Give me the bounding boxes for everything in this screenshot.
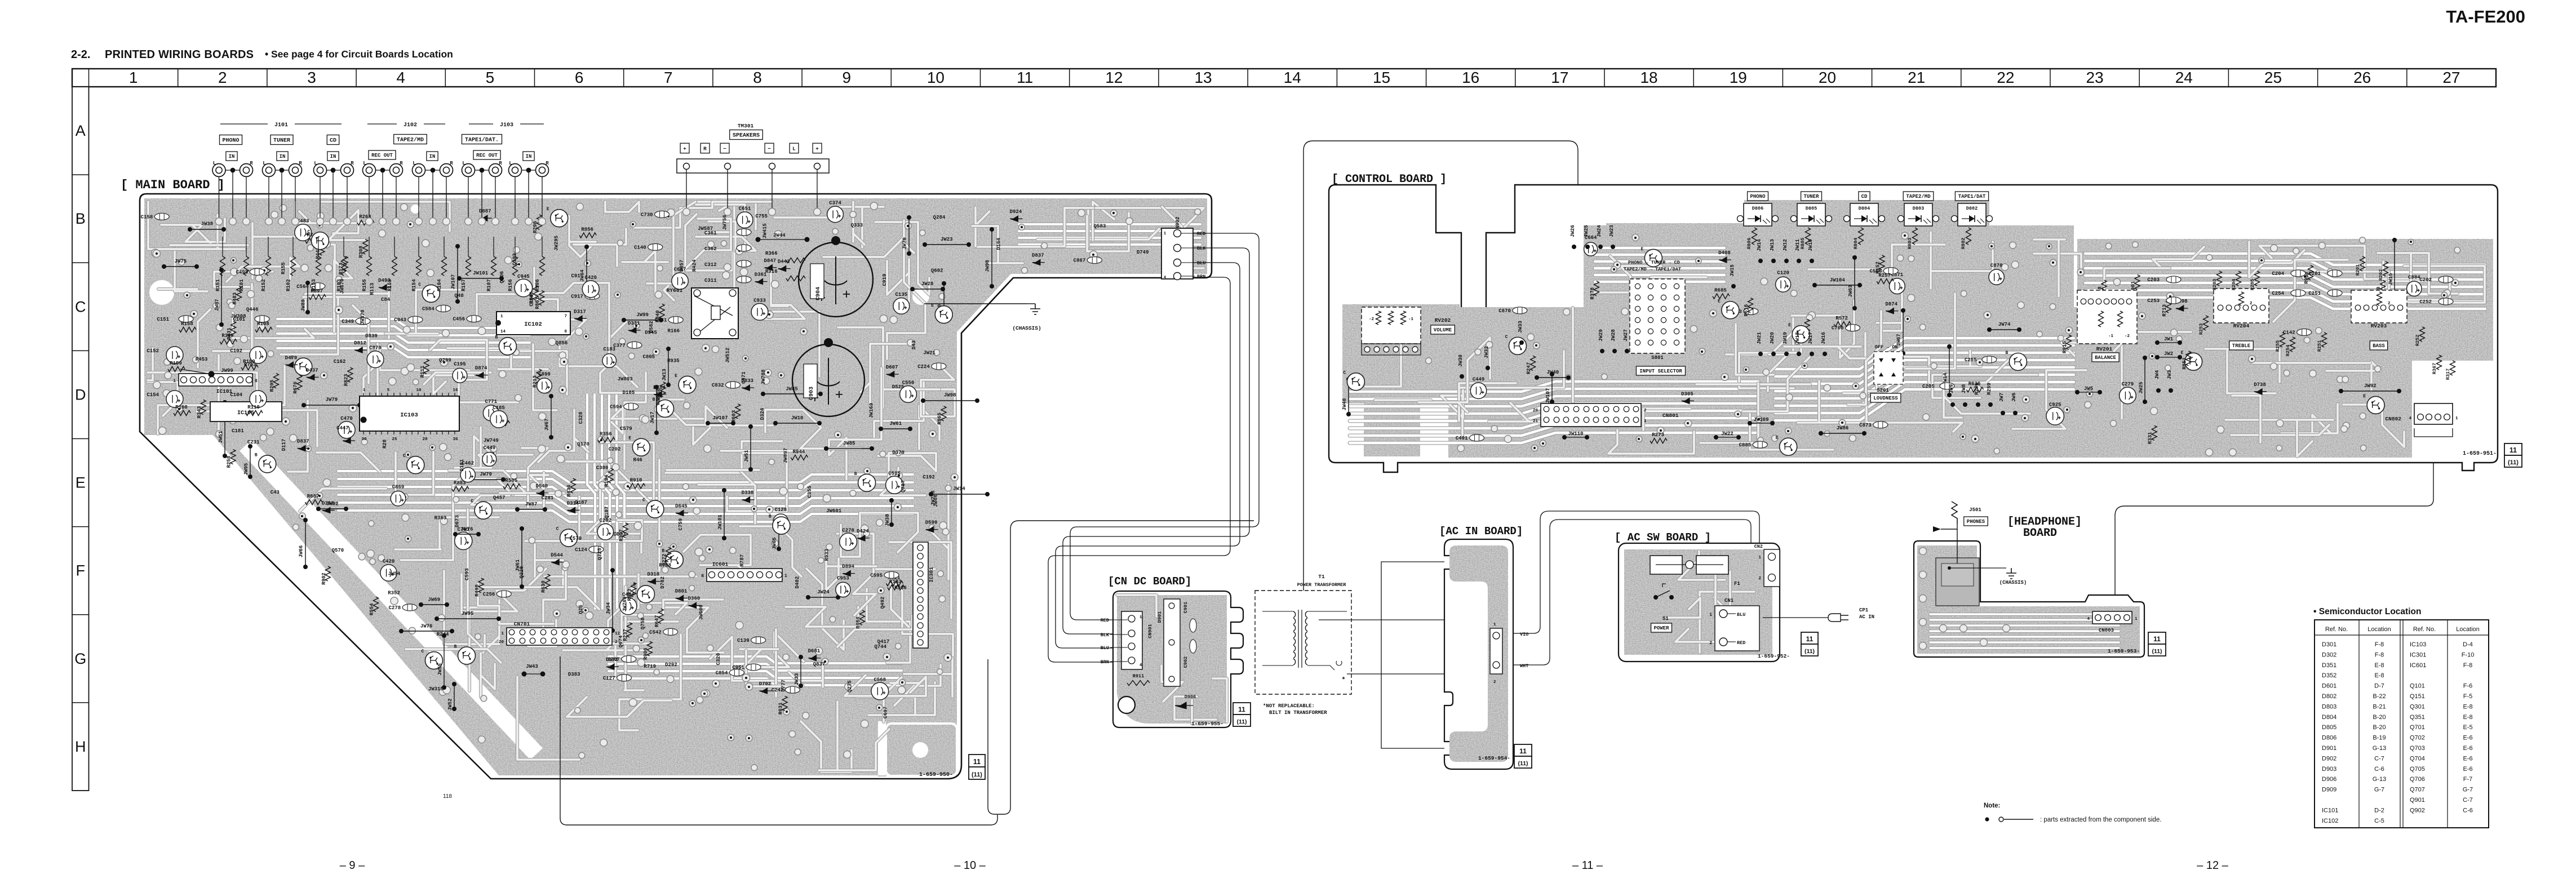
- wire: [874, 379, 924, 438]
- svg-text:D906: D906: [2322, 776, 2336, 783]
- svg-text:E-6: E-6: [2463, 755, 2472, 762]
- diode D424: [857, 535, 870, 541]
- wire: [2253, 361, 2370, 365]
- svg-text:JW27: JW27: [1623, 329, 1629, 341]
- wire: [471, 495, 509, 505]
- capacitor C899: [537, 378, 552, 393]
- svg-text:C903: C903: [809, 387, 815, 400]
- svg-text:C771: C771: [485, 399, 498, 405]
- capacitor C207: [622, 655, 636, 662]
- resistor R851: [2186, 351, 2191, 366]
- svg-text:RV201: RV201: [2096, 346, 2113, 352]
- jumper JW65: [777, 520, 781, 524]
- svg-text:R865: R865: [937, 412, 943, 425]
- svg-text:11: 11: [2510, 446, 2517, 454]
- diode D305: [1682, 398, 1694, 403]
- wire: [647, 202, 695, 283]
- capacitor C128: [773, 514, 788, 529]
- resistor R111: [424, 360, 429, 374]
- svg-text:JW25: JW25: [1584, 225, 1589, 237]
- wire: [889, 542, 951, 618]
- svg-text:R244: R244: [437, 632, 449, 637]
- svg-text:JW30: JW30: [1458, 354, 1464, 367]
- svg-text:JW38: JW38: [201, 221, 214, 227]
- svg-text:C878: C878: [369, 345, 382, 351]
- resistor R398: [220, 339, 237, 344]
- wire: [840, 207, 884, 247]
- wire: [774, 629, 778, 696]
- svg-text:E-6: E-6: [2463, 745, 2472, 752]
- wire: [214, 272, 273, 353]
- wire: [929, 484, 948, 579]
- svg-text:C867: C867: [1074, 258, 1086, 264]
- svg-text:R378: R378: [1590, 287, 1595, 300]
- svg-text:JW40: JW40: [1547, 370, 1559, 375]
- svg-text:Q299: Q299: [439, 357, 451, 363]
- potentiometer RV204 TREBLE: [2214, 289, 2269, 323]
- wire: [660, 400, 727, 428]
- svg-text:G-13: G-13: [2373, 776, 2386, 783]
- wire: [498, 448, 548, 507]
- svg-text:TAPE2/MD → TAPE1/DAT: TAPE2/MD → TAPE1/DAT: [1624, 267, 1681, 272]
- svg-text:IC102: IC102: [2322, 818, 2338, 824]
- svg-text:JW23: JW23: [941, 237, 953, 242]
- svg-text:VIO: VIO: [1520, 632, 1528, 637]
- CN DC board outline: [1113, 591, 1243, 727]
- svg-text:S1: S1: [1662, 616, 1669, 622]
- svg-text:C570: C570: [570, 536, 582, 542]
- svg-text:RY601: RY601: [667, 287, 683, 294]
- svg-text:7: 7: [564, 314, 567, 319]
- resistor R367: [2437, 355, 2442, 370]
- svg-text:Q674: Q674: [618, 635, 624, 647]
- svg-text:C904: C904: [815, 287, 822, 300]
- svg-text:R936: R936: [894, 585, 907, 591]
- svg-text:CD: CD: [1861, 194, 1868, 199]
- svg-text:12: 12: [1105, 69, 1123, 86]
- svg-text:B-19: B-19: [2373, 735, 2386, 742]
- svg-text:C755: C755: [755, 214, 768, 219]
- wire CN802 to CN803: [2115, 438, 2433, 610]
- wire: [786, 607, 858, 627]
- wire: [1019, 229, 1200, 233]
- svg-text:(CHASSIS): (CHASSIS): [1999, 580, 2027, 585]
- svg-text:LOUDNESS: LOUDNESS: [1873, 396, 1898, 401]
- resistor R104: [444, 237, 445, 256]
- svg-text:R108: R108: [257, 321, 269, 327]
- wire: [829, 368, 881, 480]
- svg-text:C278: C278: [389, 605, 401, 611]
- wire: [1930, 641, 2119, 644]
- svg-text:20: 20: [499, 640, 504, 645]
- sheet ref box 11 (AC SW): [1801, 632, 1818, 644]
- headphone copper area: [1917, 545, 2140, 654]
- resistor R804: [1859, 228, 1864, 245]
- coordinate grid letter column: [72, 87, 89, 791]
- svg-text:R252: R252: [2415, 335, 2420, 346]
- jumper JW38: [889, 498, 894, 503]
- svg-text:E: E: [1776, 436, 1779, 441]
- fuse F1: [1650, 556, 1682, 574]
- svg-text:JW22: JW22: [1721, 431, 1733, 437]
- transistor Q365: [2367, 396, 2384, 414]
- svg-text:BLK: BLK: [1101, 632, 1110, 638]
- terminal label +: [813, 143, 822, 153]
- wire: [444, 571, 499, 655]
- svg-text:JW101: JW101: [717, 514, 723, 530]
- svg-text:D360: D360: [688, 596, 700, 601]
- svg-text:D847: D847: [764, 258, 777, 264]
- svg-text:C207: C207: [608, 656, 620, 662]
- resistor R337: [623, 523, 628, 538]
- wire: [569, 216, 596, 257]
- svg-text:1-659-953-: 1-659-953-: [2108, 648, 2140, 654]
- wire: [338, 495, 913, 506]
- svg-text:JW79: JW79: [326, 397, 338, 403]
- wire: [605, 202, 639, 212]
- svg-text:[ CONTROL BOARD ]: [ CONTROL BOARD ]: [1332, 173, 1447, 186]
- svg-text:JW295: JW295: [553, 236, 559, 251]
- wires T1 to AC IN: [1319, 619, 1444, 620]
- svg-text:CN2: CN2: [1754, 544, 1763, 549]
- svg-text:Q151: Q151: [2410, 693, 2425, 700]
- diode D479: [285, 362, 298, 367]
- svg-text:B: B: [854, 472, 857, 477]
- jumper JW70: [907, 215, 911, 220]
- svg-text:JW24: JW24: [1597, 225, 1602, 237]
- svg-text:(11): (11): [2508, 459, 2519, 466]
- svg-text:(11): (11): [1236, 718, 1247, 725]
- resistor R616: [1748, 298, 1753, 313]
- resistor R901: [2135, 275, 2140, 290]
- connector label TAPE1/DAT (control board): [1955, 192, 1988, 201]
- diagonal clearance strip: [246, 445, 537, 754]
- wire: [806, 569, 844, 650]
- svg-text:R106: R106: [535, 279, 540, 291]
- connector label PHONO: [220, 135, 242, 145]
- wire: [2232, 396, 2260, 442]
- svg-text:R434: R434: [566, 485, 572, 497]
- svg-text:D292: D292: [665, 662, 677, 668]
- capacitor C483: [295, 224, 312, 241]
- resistor R861: [539, 291, 544, 305]
- capacitor C374: [827, 206, 844, 223]
- wire: [198, 309, 210, 367]
- svg-text:C: C: [471, 499, 473, 504]
- svg-text:Q837: Q837: [813, 662, 826, 667]
- jumper JW76: [453, 532, 458, 536]
- svg-text:D370: D370: [892, 450, 905, 456]
- wire: [363, 360, 392, 411]
- svg-text:C759: C759: [678, 518, 684, 531]
- svg-text:R247: R247: [1526, 362, 1532, 375]
- diode D318: [648, 579, 660, 584]
- svg-text:IN: IN: [229, 154, 235, 159]
- svg-text:C204: C204: [2272, 271, 2284, 277]
- svg-text:Q446: Q446: [246, 307, 259, 313]
- svg-text:Q228: Q228: [519, 566, 525, 579]
- diode D360: [688, 602, 700, 608]
- svg-text:CN701: CN701: [514, 621, 530, 627]
- svg-text:JW169: JW169: [868, 403, 874, 418]
- capacitor C933: [751, 304, 768, 321]
- svg-text:Q107: Q107: [604, 507, 610, 519]
- svg-text:C124: C124: [575, 547, 587, 553]
- svg-text:C943: C943: [394, 317, 406, 323]
- svg-text:C139: C139: [737, 638, 750, 644]
- svg-text:C832: C832: [712, 383, 724, 388]
- svg-text:C: C: [642, 498, 645, 503]
- jumper JW69: [419, 602, 423, 607]
- resistor R647: [658, 609, 663, 623]
- diode D681: [808, 655, 821, 661]
- resistor R257: [1877, 279, 1894, 284]
- svg-text:JW23: JW23: [1609, 225, 1615, 237]
- svg-text:JW370: JW370: [360, 309, 366, 325]
- svg-text:JW601: JW601: [826, 508, 842, 514]
- svg-text:C899: C899: [538, 371, 551, 377]
- svg-text:D673: D673: [455, 515, 460, 527]
- diode D702: [759, 688, 772, 694]
- resistor R805: [1806, 228, 1811, 245]
- potentiometer RV202 VOLUME: [1362, 307, 1421, 344]
- wire: [1944, 373, 2030, 418]
- wire: [887, 259, 909, 302]
- wire: [801, 721, 852, 772]
- svg-text:JW512: JW512: [725, 348, 731, 363]
- svg-text:JW87: JW87: [525, 502, 538, 507]
- svg-text:R554: R554: [369, 603, 375, 615]
- wire: [875, 222, 929, 295]
- jumper JW10: [942, 281, 946, 286]
- svg-text:R308: R308: [358, 246, 364, 258]
- wire CN DC loop to AC SW: [560, 656, 997, 825]
- transistor Q428: [560, 529, 578, 547]
- diode D894: [843, 571, 855, 576]
- wire: [227, 258, 299, 282]
- LED D806: [1744, 203, 1772, 226]
- svg-text:IC301: IC301: [929, 567, 934, 583]
- wire: [277, 334, 530, 343]
- capacitor/resistor C101: [255, 316, 269, 322]
- wire: [1489, 403, 1586, 421]
- wire: [447, 347, 509, 350]
- resistor R194: [608, 468, 613, 483]
- svg-text:D185: D185: [623, 390, 635, 396]
- svg-text:−: −: [768, 145, 771, 152]
- wire: [819, 702, 889, 770]
- svg-text:C933: C933: [753, 298, 766, 303]
- svg-text:TAPE2/MD: TAPE2/MD: [1906, 194, 1931, 199]
- wire: [317, 452, 380, 472]
- capacitor/resistor R109: [241, 365, 258, 370]
- transistor Q293: [1792, 326, 1810, 343]
- svg-text:F: F: [76, 562, 86, 579]
- capacitor C730: [655, 211, 670, 218]
- capacitor C349: [356, 318, 370, 325]
- wire: [1161, 665, 1183, 702]
- wire: [148, 372, 317, 446]
- jack wires into board: [369, 176, 370, 220]
- jumper JW92: [2339, 389, 2343, 393]
- svg-text:PHONO: PHONO: [1750, 194, 1766, 199]
- wire: [424, 375, 473, 394]
- resistor R464: [860, 610, 865, 625]
- svg-text:E: E: [76, 474, 86, 491]
- svg-text:JW52: JW52: [447, 698, 453, 711]
- resistor R296: [537, 215, 542, 229]
- svg-text:C670: C670: [1498, 308, 1511, 314]
- diode D361: [755, 279, 768, 285]
- svg-text:C: C: [308, 229, 311, 234]
- svg-text:C231: C231: [247, 440, 260, 445]
- wire: [609, 656, 902, 663]
- resistor R603: [735, 404, 741, 419]
- wire: [560, 347, 637, 387]
- svg-text:C491: C491: [1456, 436, 1468, 441]
- capacitor C420: [380, 565, 397, 581]
- wire: [338, 479, 913, 490]
- wire: [624, 587, 644, 690]
- capacitor C951: [746, 664, 761, 671]
- svg-text:2: 2: [2250, 301, 2253, 306]
- svg-text:– 10 –: – 10 –: [954, 859, 986, 872]
- capacitor C870: [1989, 269, 2004, 285]
- svg-text:D383: D383: [568, 672, 580, 677]
- capacitor C224: [932, 363, 946, 370]
- mounting hole: [912, 288, 929, 305]
- svg-text:JW15: JW15: [1730, 264, 1735, 277]
- wire: [853, 202, 864, 245]
- svg-text:C870: C870: [1990, 263, 2003, 269]
- svg-text:6: 6: [575, 69, 584, 86]
- wire: [148, 382, 178, 416]
- wire: [502, 369, 549, 372]
- transistor Q915: [425, 652, 442, 669]
- capacitor C270: [840, 533, 857, 551]
- svg-text:SPEAKERS: SPEAKERS: [733, 133, 760, 139]
- svg-text:D901: D901: [1157, 611, 1163, 623]
- diode D874: [476, 372, 488, 378]
- svg-text:C158: C158: [141, 214, 153, 220]
- svg-text:R259: R259: [1987, 383, 1992, 395]
- svg-text:R630: R630: [541, 580, 547, 593]
- transistor Q327: [1509, 337, 1526, 354]
- diode D493: [379, 285, 391, 290]
- wire: [338, 471, 913, 482]
- svg-text:D-7: D-7: [2374, 683, 2384, 690]
- svg-text:R906: R906: [643, 647, 649, 660]
- svg-text:C697: C697: [883, 707, 889, 719]
- svg-text:R111: R111: [420, 365, 425, 378]
- wire: [385, 290, 460, 334]
- wire: [1700, 592, 1754, 653]
- control board pads: [1923, 414, 1930, 420]
- svg-text:27: 27: [2442, 69, 2460, 86]
- svg-text:C470: C470: [340, 416, 353, 421]
- svg-text:JW74: JW74: [1998, 322, 2011, 327]
- wire: [1931, 232, 1993, 289]
- svg-text:JW89: JW89: [301, 299, 307, 312]
- svg-text:D117: D117: [281, 439, 287, 451]
- terminal label L: [790, 143, 799, 153]
- wire: [2085, 298, 2485, 309]
- svg-text:AC IN: AC IN: [1859, 614, 1874, 620]
- wire: [2326, 362, 2380, 391]
- svg-text:R806: R806: [1746, 238, 1752, 249]
- wire: [1930, 618, 2119, 622]
- LED D803: [1904, 203, 1932, 226]
- capacitor C127: [617, 675, 631, 681]
- svg-text:R804: R804: [1853, 238, 1859, 249]
- svg-text:TAPE1/DAT: TAPE1/DAT: [1958, 194, 1986, 199]
- switch S1 POWER: [1653, 595, 1658, 600]
- wire: [1930, 624, 2119, 627]
- headphone jack area (dark): [1936, 558, 1979, 606]
- svg-text:R331: R331: [2148, 432, 2153, 444]
- svg-text:JW75: JW75: [175, 259, 187, 264]
- svg-text:PHONO: PHONO: [222, 138, 239, 144]
- svg-text:D540: D540: [536, 483, 548, 489]
- svg-text:C104: C104: [230, 392, 242, 398]
- svg-text:CN901: CN901: [1147, 624, 1153, 638]
- wire: [305, 281, 389, 338]
- main board copper area: [144, 198, 1207, 776]
- svg-text:F-7: F-7: [2463, 776, 2473, 783]
- svg-text:PHONES: PHONES: [1967, 519, 1985, 525]
- svg-text:21: 21: [1908, 69, 1925, 86]
- capacitor C568: [871, 682, 889, 700]
- svg-text:C205: C205: [1922, 384, 1935, 389]
- wire: [1375, 398, 1431, 402]
- svg-text:E: E: [1641, 247, 1643, 252]
- wire: [2231, 425, 2329, 435]
- resistor R138: [2101, 280, 2107, 295]
- resistor R103: [343, 237, 344, 256]
- capacitor/resistor R159: [168, 367, 185, 372]
- svg-text:D873: D873: [614, 531, 626, 537]
- wire: [1350, 418, 1758, 428]
- resistor R908: [2308, 265, 2313, 280]
- svg-text:JW10: JW10: [1808, 239, 1814, 251]
- svg-text:Q48: Q48: [455, 293, 464, 299]
- transistor Q811: [656, 400, 673, 417]
- capacitor C953: [836, 582, 850, 597]
- svg-text:JW110: JW110: [1568, 431, 1583, 437]
- wire: [277, 319, 530, 328]
- wire: [1675, 629, 1722, 642]
- resistor R920: [2380, 280, 2386, 295]
- transistor Q412: [679, 376, 696, 393]
- svg-text:REC OUT: REC OUT: [476, 153, 498, 158]
- wire: [281, 297, 358, 354]
- wire: [1350, 381, 1758, 392]
- jumper JW10: [773, 421, 778, 425]
- resistor R154: [418, 237, 419, 256]
- svg-text:Q602: Q602: [931, 268, 943, 273]
- svg-text:JW21: JW21: [923, 350, 935, 356]
- svg-text:JW63: JW63: [1848, 285, 1854, 298]
- jumper JW28: [910, 287, 915, 291]
- wire: [1775, 382, 2074, 413]
- sheet ref box 11 (AC IN): [1514, 744, 1532, 756]
- capacitor C667: [672, 273, 688, 289]
- wire: [1093, 202, 1114, 240]
- svg-text:C202: C202: [609, 446, 621, 452]
- svg-text:JW85: JW85: [843, 441, 855, 446]
- wire: [2034, 239, 2065, 296]
- wire: [161, 219, 225, 244]
